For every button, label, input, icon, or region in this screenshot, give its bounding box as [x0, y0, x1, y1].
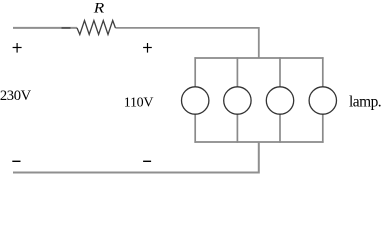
svg-text:R: R — [93, 1, 105, 17]
svg-text:110V: 110V — [124, 96, 154, 111]
svg-text:230V: 230V — [0, 88, 32, 104]
svg-text:lamp.: lamp. — [349, 93, 381, 110]
